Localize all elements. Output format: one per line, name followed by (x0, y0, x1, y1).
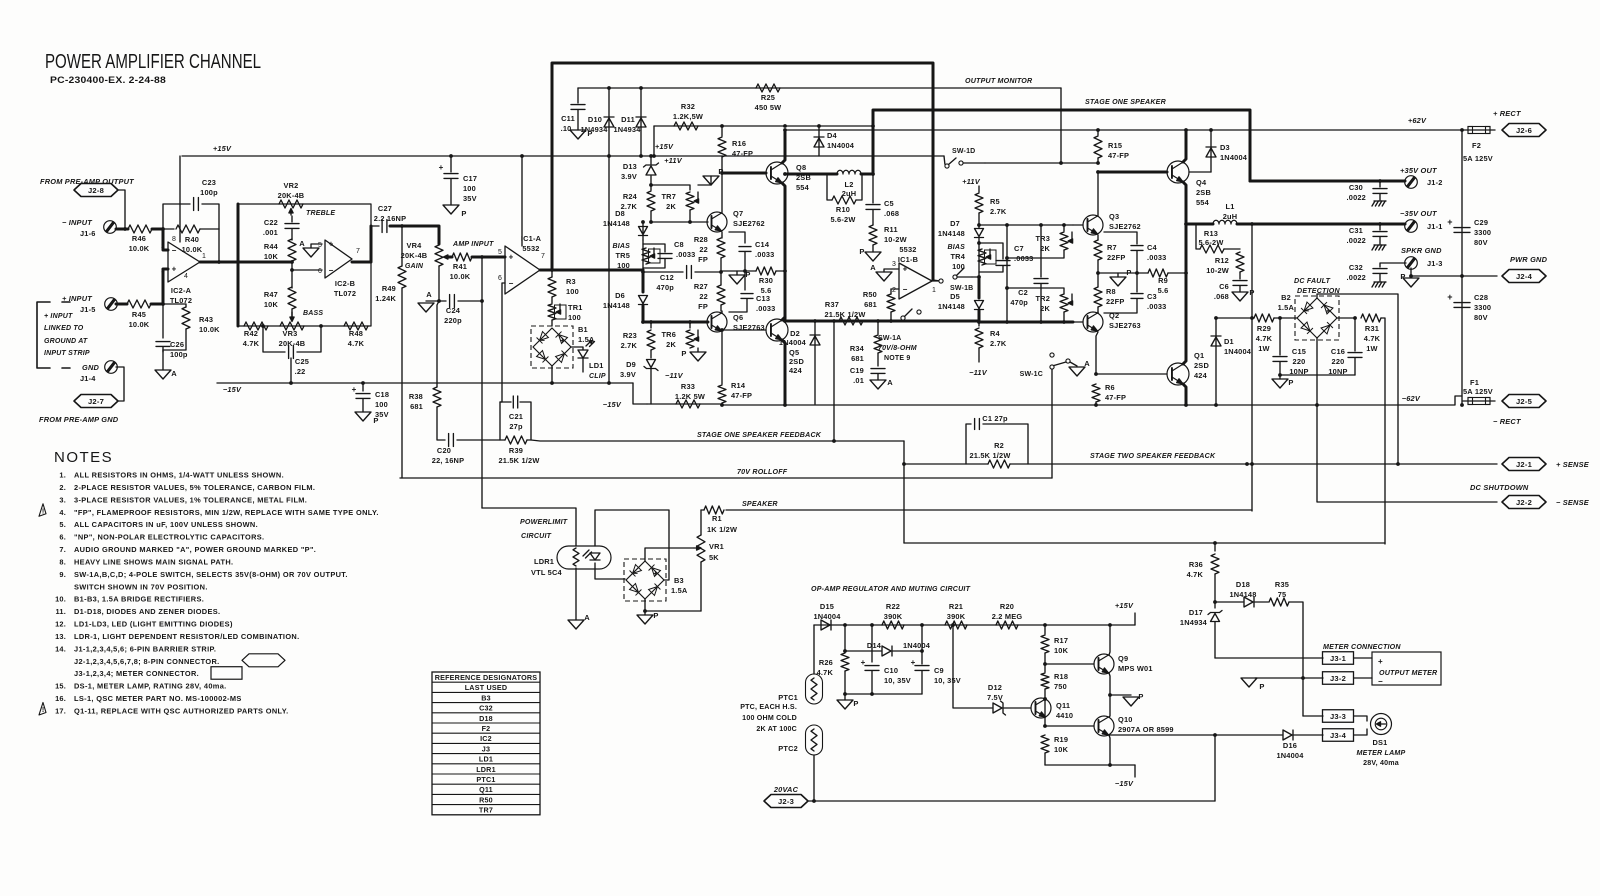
label J1-2 (1427, 178, 1443, 187)
junction (1250, 222, 1254, 226)
wire R9 right (1168, 272, 1186, 274)
junction (871, 172, 875, 176)
svg-text:+ RECT: + RECT (1493, 109, 1522, 118)
ground P power C18 (355, 412, 371, 421)
svg-text:VR2: VR2 (284, 181, 299, 190)
wire (521, 156, 523, 246)
resistor R30 (756, 267, 776, 275)
wire C3 bottom (1104, 299, 1137, 313)
wire (844, 671, 846, 694)
svg-text:10K: 10K (264, 252, 279, 261)
wire (362, 383, 364, 391)
label C22 value (263, 228, 278, 237)
junction (639, 154, 643, 158)
svg-text:1.24K: 1.24K (375, 294, 396, 303)
svg-text:C15: C15 (1292, 347, 1306, 356)
potentiometer VR3 (280, 322, 304, 330)
svg-text:21.5K 1/2W: 21.5K 1/2W (824, 310, 865, 319)
wire D16 right (1294, 734, 1323, 736)
resistor R43 (182, 307, 190, 329)
wire C10 top (871, 625, 873, 662)
wire Q9-Q10 (1109, 673, 1110, 717)
junction (1108, 623, 1112, 627)
svg-text:4.7K: 4.7K (243, 339, 260, 348)
svg-text:J2-5: J2-5 (1516, 397, 1533, 406)
svg-text:7.: 7. (59, 545, 66, 554)
svg-text:TREBLE: TREBLE (306, 210, 335, 217)
wire Q6 emitter (721, 332, 723, 384)
wire J3-2 meter (1354, 677, 1372, 679)
label R7 value (1107, 253, 1125, 262)
wire R15 top (1097, 130, 1099, 135)
capacitor C17 (444, 174, 458, 179)
resistor R40 (176, 225, 200, 233)
svg-text:BIAS: BIAS (947, 244, 965, 251)
svg-text:VR3: VR3 (283, 329, 298, 338)
note text 10. (74, 595, 204, 604)
label R12 (1215, 256, 1229, 265)
wire reg bus (814, 624, 1135, 626)
net PWR GND (1510, 255, 1548, 264)
wire P mid (736, 271, 738, 275)
label C25 value (295, 367, 306, 376)
wire TR7 top (651, 185, 690, 190)
svg-text:R16: R16 (732, 139, 746, 148)
junction (161, 302, 165, 306)
label R30 (759, 276, 773, 285)
svg-text:1W: 1W (1366, 344, 1378, 353)
label C8 value (676, 250, 696, 259)
svg-text:R19: R19 (1054, 735, 1068, 744)
label C11 value (561, 124, 572, 133)
label D18 type (1229, 590, 1256, 599)
label TR5 (615, 251, 630, 260)
note number 9. (59, 570, 66, 579)
svg-text:450 5W: 450 5W (755, 103, 782, 112)
svg-text:2: 2 (161, 243, 165, 250)
resistor R5 (975, 193, 983, 213)
capacitor C32 (1373, 269, 1387, 274)
label DS1 value (1363, 759, 1399, 767)
svg-text:LAST USED: LAST USED (465, 683, 508, 692)
wire Q5 emitter (782, 340, 785, 405)
resistor R21 (945, 621, 967, 629)
capacitor C28 plus (1447, 292, 1452, 302)
label C27 (378, 204, 392, 213)
label D13 (623, 162, 637, 171)
wire C3 top (1136, 273, 1138, 292)
label R42 value (243, 339, 260, 348)
label R26 (819, 658, 833, 667)
inductor L2 (837, 170, 861, 174)
svg-text:5.: 5. (59, 520, 66, 529)
junction (1250, 462, 1254, 466)
wire (1097, 307, 1099, 313)
resistor R47 (288, 287, 296, 309)
svg-text:J1-1,2,3,4,5,6; 6-PIN BARRIE: J1-1,2,3,4,5,6; 6-PIN BARRIER STRIP. (74, 644, 216, 653)
wire bridge to R31 (1337, 317, 1356, 319)
svg-text:"NP", NON-POLAR ELECTROLYTIC: "NP", NON-POLAR ELECTROLYTIC CAPACITORS. (74, 533, 264, 542)
svg-text:6: 6 (318, 268, 322, 275)
label P reg (853, 699, 858, 708)
svg-text:5532: 5532 (522, 244, 539, 253)
label R16 (732, 139, 746, 148)
wire (1214, 622, 1216, 658)
svg-text:47-FP: 47-FP (1105, 393, 1126, 402)
label TR7 value (666, 202, 676, 211)
wire stage one speaker (873, 110, 1250, 181)
svg-text:PTC2: PTC2 (778, 744, 798, 753)
junction (720, 124, 724, 128)
label R35 value (1278, 590, 1287, 599)
capacitor C3 (1131, 294, 1143, 299)
junction (1184, 222, 1188, 226)
svg-text:LINKED TO: LINKED TO (44, 325, 84, 332)
wire B1 to -15V (551, 366, 553, 383)
connector J2-7 (74, 395, 118, 408)
label C16 v1 (1332, 357, 1345, 366)
resistor R48 (344, 322, 368, 330)
diode D9 (644, 360, 658, 371)
svg-text:D18: D18 (479, 714, 493, 723)
svg-text:P: P (1138, 692, 1143, 701)
svg-text:R12: R12 (1215, 256, 1229, 265)
meter box (1372, 652, 1441, 685)
label R49 value (375, 294, 396, 303)
wire B3 south (644, 599, 646, 611)
svg-text:C18: C18 (375, 390, 389, 399)
svg-text:C12: C12 (660, 273, 674, 282)
wire to D16 (1110, 734, 1215, 736)
label C21 value (509, 422, 523, 431)
wire Q10 emitter (1109, 735, 1110, 765)
wire 70V rolloff (400, 477, 1052, 479)
diode D15 (821, 620, 831, 630)
label VR3 (283, 329, 298, 338)
label Q1 type2 (1194, 371, 1208, 380)
junction (951, 623, 955, 627)
wire TR2 bottom (1063, 312, 1065, 322)
net 70V/8-OHM (878, 345, 917, 352)
wire R49 to rolloff (401, 288, 403, 478)
label R19 (1054, 735, 1068, 744)
svg-text:+: + (1447, 217, 1452, 227)
label Q4 type2 (1196, 198, 1210, 207)
svg-text:R32: R32 (681, 102, 695, 111)
wire Q9 base (1045, 663, 1094, 665)
svg-text:R50: R50 (479, 795, 493, 804)
svg-text:A: A (299, 239, 305, 248)
transistor Q3 (1083, 215, 1103, 235)
svg-text:100: 100 (375, 400, 388, 409)
label R33 value (675, 392, 705, 401)
junction (871, 124, 875, 128)
svg-text:J1-4: J1-4 (80, 374, 96, 383)
wire (291, 229, 293, 240)
net +11V (664, 156, 683, 165)
wire to J3-2 (1255, 677, 1323, 679)
wire (582, 358, 584, 372)
svg-text:1.2K 5W: 1.2K 5W (675, 392, 705, 401)
terminal J1-1 (1405, 220, 1418, 233)
net -11V b (969, 368, 988, 377)
label C16 (1331, 347, 1345, 356)
pin 3 IC1-B (892, 261, 896, 268)
label Q2 (1109, 311, 1119, 320)
label R6 (1105, 383, 1115, 392)
wiper VR3 (290, 312, 294, 322)
label P B3 (653, 611, 658, 620)
connector J3-2 (1323, 672, 1354, 685)
label D3 type (1220, 153, 1248, 162)
switch SW-1B (933, 268, 972, 283)
resistor R38 (433, 387, 441, 407)
label D15 (820, 602, 834, 611)
svg-text:C32: C32 (1349, 263, 1363, 272)
label R37 value (824, 310, 865, 319)
label TR2 (1035, 294, 1050, 303)
svg-text:−: − (633, 569, 638, 578)
svg-text:D2: D2 (790, 329, 800, 338)
junction (1096, 128, 1100, 132)
svg-text:−11V: −11V (969, 368, 988, 377)
label C32 (1349, 263, 1363, 272)
svg-text:1: 1 (932, 287, 936, 294)
wire R32 line (654, 125, 873, 127)
wire (890, 312, 892, 321)
junction (1096, 170, 1100, 174)
junction (1213, 600, 1217, 604)
svg-text:5.6-2W: 5.6-2W (830, 215, 855, 224)
label IC2-A type (170, 296, 192, 305)
svg-text:B1-B3, 1.5A BRIDGE RECTIFIE: B1-B3, 1.5A BRIDGE RECTIFIERS. (74, 595, 204, 604)
note text 8. (74, 557, 233, 566)
pin 2 IC1-B (892, 287, 896, 294)
wire -15V bus (1045, 764, 1135, 766)
label R31 v1 (1364, 334, 1381, 343)
svg-text:F1: F1 (1470, 378, 1479, 387)
label R4 (990, 329, 1001, 338)
wire (179, 156, 181, 242)
svg-text:OUTPUT METER: OUTPUT METER (1379, 669, 1438, 677)
svg-text:4.7K: 4.7K (348, 339, 365, 348)
label B3 value (671, 586, 688, 595)
label R12 value (1206, 266, 1229, 275)
label D7 (950, 219, 960, 228)
svg-text:47-FP: 47-FP (1108, 151, 1129, 160)
svg-text:3.9V: 3.9V (620, 370, 636, 379)
wire (450, 156, 452, 172)
svg-text:4.: 4. (59, 508, 66, 517)
transistor Q7 (707, 212, 727, 232)
label B2 (1281, 293, 1291, 302)
capacitor C16 (1348, 353, 1362, 358)
label C2 (1018, 288, 1028, 297)
loop C21 R39 (500, 402, 531, 440)
label D7 type (938, 229, 965, 238)
label D13 value (621, 172, 637, 181)
wire to L1 (1186, 223, 1213, 226)
wire (450, 179, 452, 205)
wire Q2 collector (1097, 312, 1099, 313)
connector J2-6 (1502, 124, 1546, 137)
wire C32 top (1380, 263, 1406, 267)
bridge rectifier B1 (531, 326, 573, 368)
junction (649, 320, 653, 324)
wire LED bottom (595, 563, 625, 579)
junction (480, 299, 484, 303)
label IC1-A (521, 234, 542, 243)
svg-text:R8: R8 (1106, 287, 1116, 296)
wire C25 right (297, 326, 321, 352)
svg-text:11.: 11. (56, 607, 66, 616)
label LDR1 (534, 557, 554, 566)
svg-text:R3: R3 (566, 277, 576, 286)
label P mid1 (745, 270, 750, 279)
capacitor C9 (915, 666, 929, 671)
diode D1 (1211, 336, 1221, 346)
junction (1184, 403, 1188, 407)
svg-text:D6: D6 (615, 291, 625, 300)
svg-text:R26: R26 (819, 658, 833, 667)
net -35V OUT (1400, 209, 1438, 218)
label D9 (626, 360, 636, 369)
junction (1184, 128, 1188, 132)
wire (644, 611, 646, 615)
label C4 value (1147, 253, 1167, 262)
label P J1-3 (1400, 272, 1405, 281)
wire TR3 top (1063, 225, 1065, 231)
wire SW-1C gnd (1070, 362, 1077, 366)
svg-text:C23: C23 (202, 178, 216, 187)
svg-text:1N4148: 1N4148 (603, 219, 630, 228)
wire R7-R8 (1097, 260, 1099, 287)
label L1 value (1223, 212, 1238, 221)
svg-text:47-FP: 47-FP (732, 149, 753, 158)
label R33 (681, 382, 695, 391)
wire C4 top (1104, 232, 1137, 244)
svg-text:IC1-B: IC1-B (898, 255, 918, 264)
wire speaker line (726, 509, 1252, 511)
wire (877, 374, 879, 380)
wire fault left (1216, 317, 1254, 319)
svg-text:C22: C22 (264, 218, 278, 227)
junction (720, 328, 724, 332)
svg-text:21.5K 1/2W: 21.5K 1/2W (498, 456, 539, 465)
note text 11. (74, 607, 220, 616)
wire D13 top (650, 156, 652, 164)
junction (1108, 693, 1112, 697)
svg-text:J3: J3 (482, 744, 490, 753)
label J1-5 (80, 305, 96, 314)
capacitor C4 (1131, 246, 1143, 251)
label J1-1 (1427, 222, 1443, 231)
ground P power B3 (637, 615, 653, 624)
svg-text:J3-1: J3-1 (1330, 654, 1347, 663)
label R8 (1106, 287, 1116, 296)
svg-text:TR3: TR3 (1035, 234, 1050, 243)
label SW-1A (878, 335, 901, 342)
label TR5 value (617, 261, 630, 270)
label R29 v2 (1258, 344, 1270, 353)
label Q10 type (1118, 725, 1174, 734)
switch SW-1A (901, 309, 921, 321)
label D1 (1224, 337, 1234, 346)
junction (1278, 373, 1282, 377)
svg-text:8.: 8. (59, 557, 66, 566)
wire to R38 (437, 301, 439, 387)
svg-text:−62V: −62V (1402, 394, 1421, 403)
label Q9 type (1118, 664, 1153, 673)
capacitor C31 (1373, 232, 1387, 237)
label R39 value (498, 456, 539, 465)
svg-text:TL072: TL072 (334, 289, 356, 298)
wire D6 bottom (642, 305, 645, 322)
svg-text:−: − (1305, 307, 1310, 316)
pin 6 IC1-A (498, 275, 502, 282)
svg-text:LDR1: LDR1 (534, 557, 554, 566)
capacitor C24 (450, 295, 455, 308)
label C28 v2 (1474, 313, 1488, 322)
note text 4. (74, 508, 379, 517)
svg-text:+ SENSE: + SENSE (1556, 460, 1590, 469)
label R7 (1107, 243, 1117, 252)
ground P power pair (1123, 697, 1139, 706)
net + SENSE (1556, 460, 1590, 469)
label R47 (264, 290, 278, 299)
svg-text:TR7: TR7 (661, 192, 676, 201)
label Q2 type (1109, 321, 1141, 330)
junction (1005, 256, 1009, 260)
junction (649, 220, 653, 224)
label C24 (446, 306, 461, 315)
svg-text:1N4934: 1N4934 (580, 125, 608, 134)
wire pin6 feedback (500, 283, 505, 402)
wire R9 left (1098, 272, 1148, 274)
svg-text:+: + (1378, 657, 1383, 666)
net BIAS (612, 243, 630, 250)
label C12 (660, 273, 674, 282)
junction (832, 439, 836, 443)
resistor R20 (996, 621, 1018, 629)
resistor R26 (841, 653, 849, 671)
wire Q2 emitter (1096, 332, 1098, 374)
net FROM PRE-AMP GND (39, 415, 119, 424)
wire R30 left (721, 270, 756, 272)
junction (261, 324, 265, 328)
svg-text:C32: C32 (479, 704, 493, 713)
label J1-4 (80, 374, 96, 383)
terminal J1-6 (104, 221, 117, 234)
note number 3. (59, 495, 66, 504)
capacitor C9 plus (911, 658, 916, 667)
svg-text:J2-1,2,3,4,5,6,7,8; 8-PIN CO: J2-1,2,3,4,5,6,7,8; 8-PIN CONNECTOR. (74, 657, 220, 666)
wire powerlimit in (482, 508, 576, 546)
label R32 value (673, 112, 703, 121)
transistor Q5 (766, 319, 788, 341)
svg-text:ALL CAPACITORS IN uF, 100V: ALL CAPACITORS IN uF, 100V UNLESS SHOWN. (74, 520, 258, 529)
note number 10. (55, 595, 66, 604)
svg-text:−: − (172, 246, 177, 255)
label Q11 (1056, 701, 1070, 710)
label P C6 (1249, 288, 1254, 297)
svg-text:R35: R35 (1275, 580, 1289, 589)
wire B2 north loop (1317, 294, 1398, 464)
resistor R44 (288, 239, 296, 261)
capacitor C30 (1373, 189, 1387, 194)
svg-text:R37: R37 (825, 300, 839, 309)
note PTC 3 (756, 725, 797, 733)
